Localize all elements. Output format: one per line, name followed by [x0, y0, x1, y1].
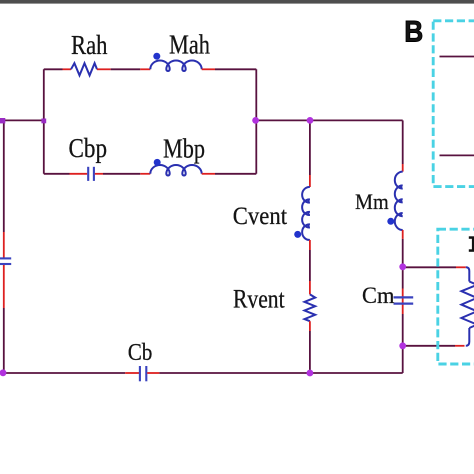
- stub wire inside box B upper: [440, 56, 474, 58]
- wire Mm column to node: [402, 239, 404, 267]
- wire lead red right of Cbp: [95, 173, 103, 175]
- wire lead red right of Rah: [97, 68, 111, 70]
- wire top branch middle: [111, 68, 141, 70]
- wire lead red above Mm coil: [402, 164, 404, 172]
- wire lead red below Rvent: [309, 321, 311, 331]
- wire bottom right segment: [159, 372, 402, 374]
- wire stub to external resistor top: [403, 266, 456, 268]
- wire lead red above Rvent: [309, 281, 311, 294]
- junction node Mm upper: [399, 263, 406, 270]
- wire feed left (edge to left rail): [2, 119, 44, 121]
- junction node at right rail: [252, 117, 259, 124]
- svg-text:Cvent: Cvent: [233, 203, 287, 230]
- wire lead red right of Cb: [147, 372, 159, 374]
- wire lower branch middle: [103, 173, 140, 175]
- wire lead red right of Mbp: [202, 173, 215, 175]
- inductor Mbp phase dot: [154, 159, 161, 166]
- wire Mm column corner from feed: [402, 120, 404, 164]
- wire lead red right of Mah: [202, 68, 215, 70]
- capacitor at left edge: [0, 258, 11, 264]
- wire lead red above Cvent coil: [309, 175, 311, 187]
- inductor Mah phase dot: [153, 53, 160, 60]
- external resistor lead top corner: [466, 267, 470, 281]
- wire top branch right segment: [215, 68, 256, 70]
- wire Cvent column middle: [309, 250, 311, 281]
- wire right rail of loop: [255, 69, 257, 174]
- capacitor Cm: [394, 297, 414, 303]
- junction node at Cvent column top: [307, 117, 314, 124]
- inductor-style coil Cvent: [302, 187, 310, 240]
- wire bottom left segment: [4, 372, 125, 374]
- svg-text:Cm: Cm: [362, 283, 394, 309]
- wire lead red stub top: [456, 266, 466, 268]
- junction node square at left rail: [41, 119, 46, 124]
- junction node Mm lower: [399, 342, 406, 349]
- coil Cvent phase dot: [294, 231, 301, 238]
- partial label glyph in lower box: [469, 236, 474, 252]
- wire lead red left of R1: [63, 68, 72, 70]
- svg-text:Rah: Rah: [71, 30, 108, 60]
- junction node bottom Cvent: [307, 370, 314, 377]
- wire left edge rail lower: [3, 308, 5, 373]
- top gray border bar: [0, 0, 474, 4]
- svg-text:Mah: Mah: [169, 30, 210, 60]
- resistor Rvent: [305, 294, 316, 321]
- wire feed right (right rail to Mm column): [256, 119, 402, 121]
- inductor Mm: [395, 172, 403, 230]
- wire Cvent column upper: [309, 120, 311, 175]
- inductor Mah: [150, 60, 201, 71]
- wire lead red below left capacitor: [3, 265, 5, 308]
- svg-text:Cbp: Cbp: [69, 133, 108, 163]
- svg-text:Mbp: Mbp: [163, 133, 205, 163]
- external resistor lead bottom corner: [466, 328, 470, 346]
- wire lead red below Mm coil: [402, 230, 404, 239]
- wire Cvent column lower: [309, 331, 311, 373]
- wire lower branch right segment: [215, 173, 256, 175]
- junction node bottom left: [0, 369, 6, 376]
- wire lead red left of Cb: [125, 372, 139, 374]
- stub wire inside box B lower: [440, 154, 474, 156]
- svg-text:Rvent: Rvent: [233, 285, 285, 314]
- svg-text:Mm: Mm: [355, 189, 389, 214]
- wire lead red left of Cbp: [70, 173, 88, 175]
- wire lower node to bottom: [402, 346, 404, 373]
- inductor Mm phase dot: [387, 218, 394, 225]
- capacitor Cb: [140, 366, 146, 381]
- wire Cm to lower node: [402, 314, 404, 346]
- dashed box B (top right): [433, 21, 474, 187]
- wire lead red below Cvent coil: [309, 240, 311, 250]
- svg-text:B: B: [404, 16, 423, 49]
- wire left rail of loop: [43, 69, 45, 174]
- wire lower branch left segment: [44, 173, 70, 175]
- wire lead red above Cm: [402, 289, 404, 315]
- wire lead red stub bottom: [455, 345, 465, 347]
- svg-text:Cb: Cb: [128, 339, 153, 366]
- wire node to Cm: [402, 267, 404, 289]
- capacitor Cbp: [88, 167, 94, 181]
- dashed box lower right: [438, 229, 474, 364]
- junction node square left edge feed: [0, 118, 5, 123]
- wire top branch left segment: [44, 68, 63, 70]
- resistor Rah: [71, 63, 97, 75]
- wire lead red left of Mah: [140, 68, 150, 70]
- inductor Mbp: [150, 165, 201, 176]
- wire lead red left of Mbp: [140, 173, 150, 175]
- wire left edge rail upper: [3, 120, 5, 232]
- wire stub to external resistor bottom: [403, 345, 455, 347]
- wire lead red above left capacitor: [3, 232, 5, 258]
- external resistor zigzag (clipped at edge): [461, 282, 474, 329]
